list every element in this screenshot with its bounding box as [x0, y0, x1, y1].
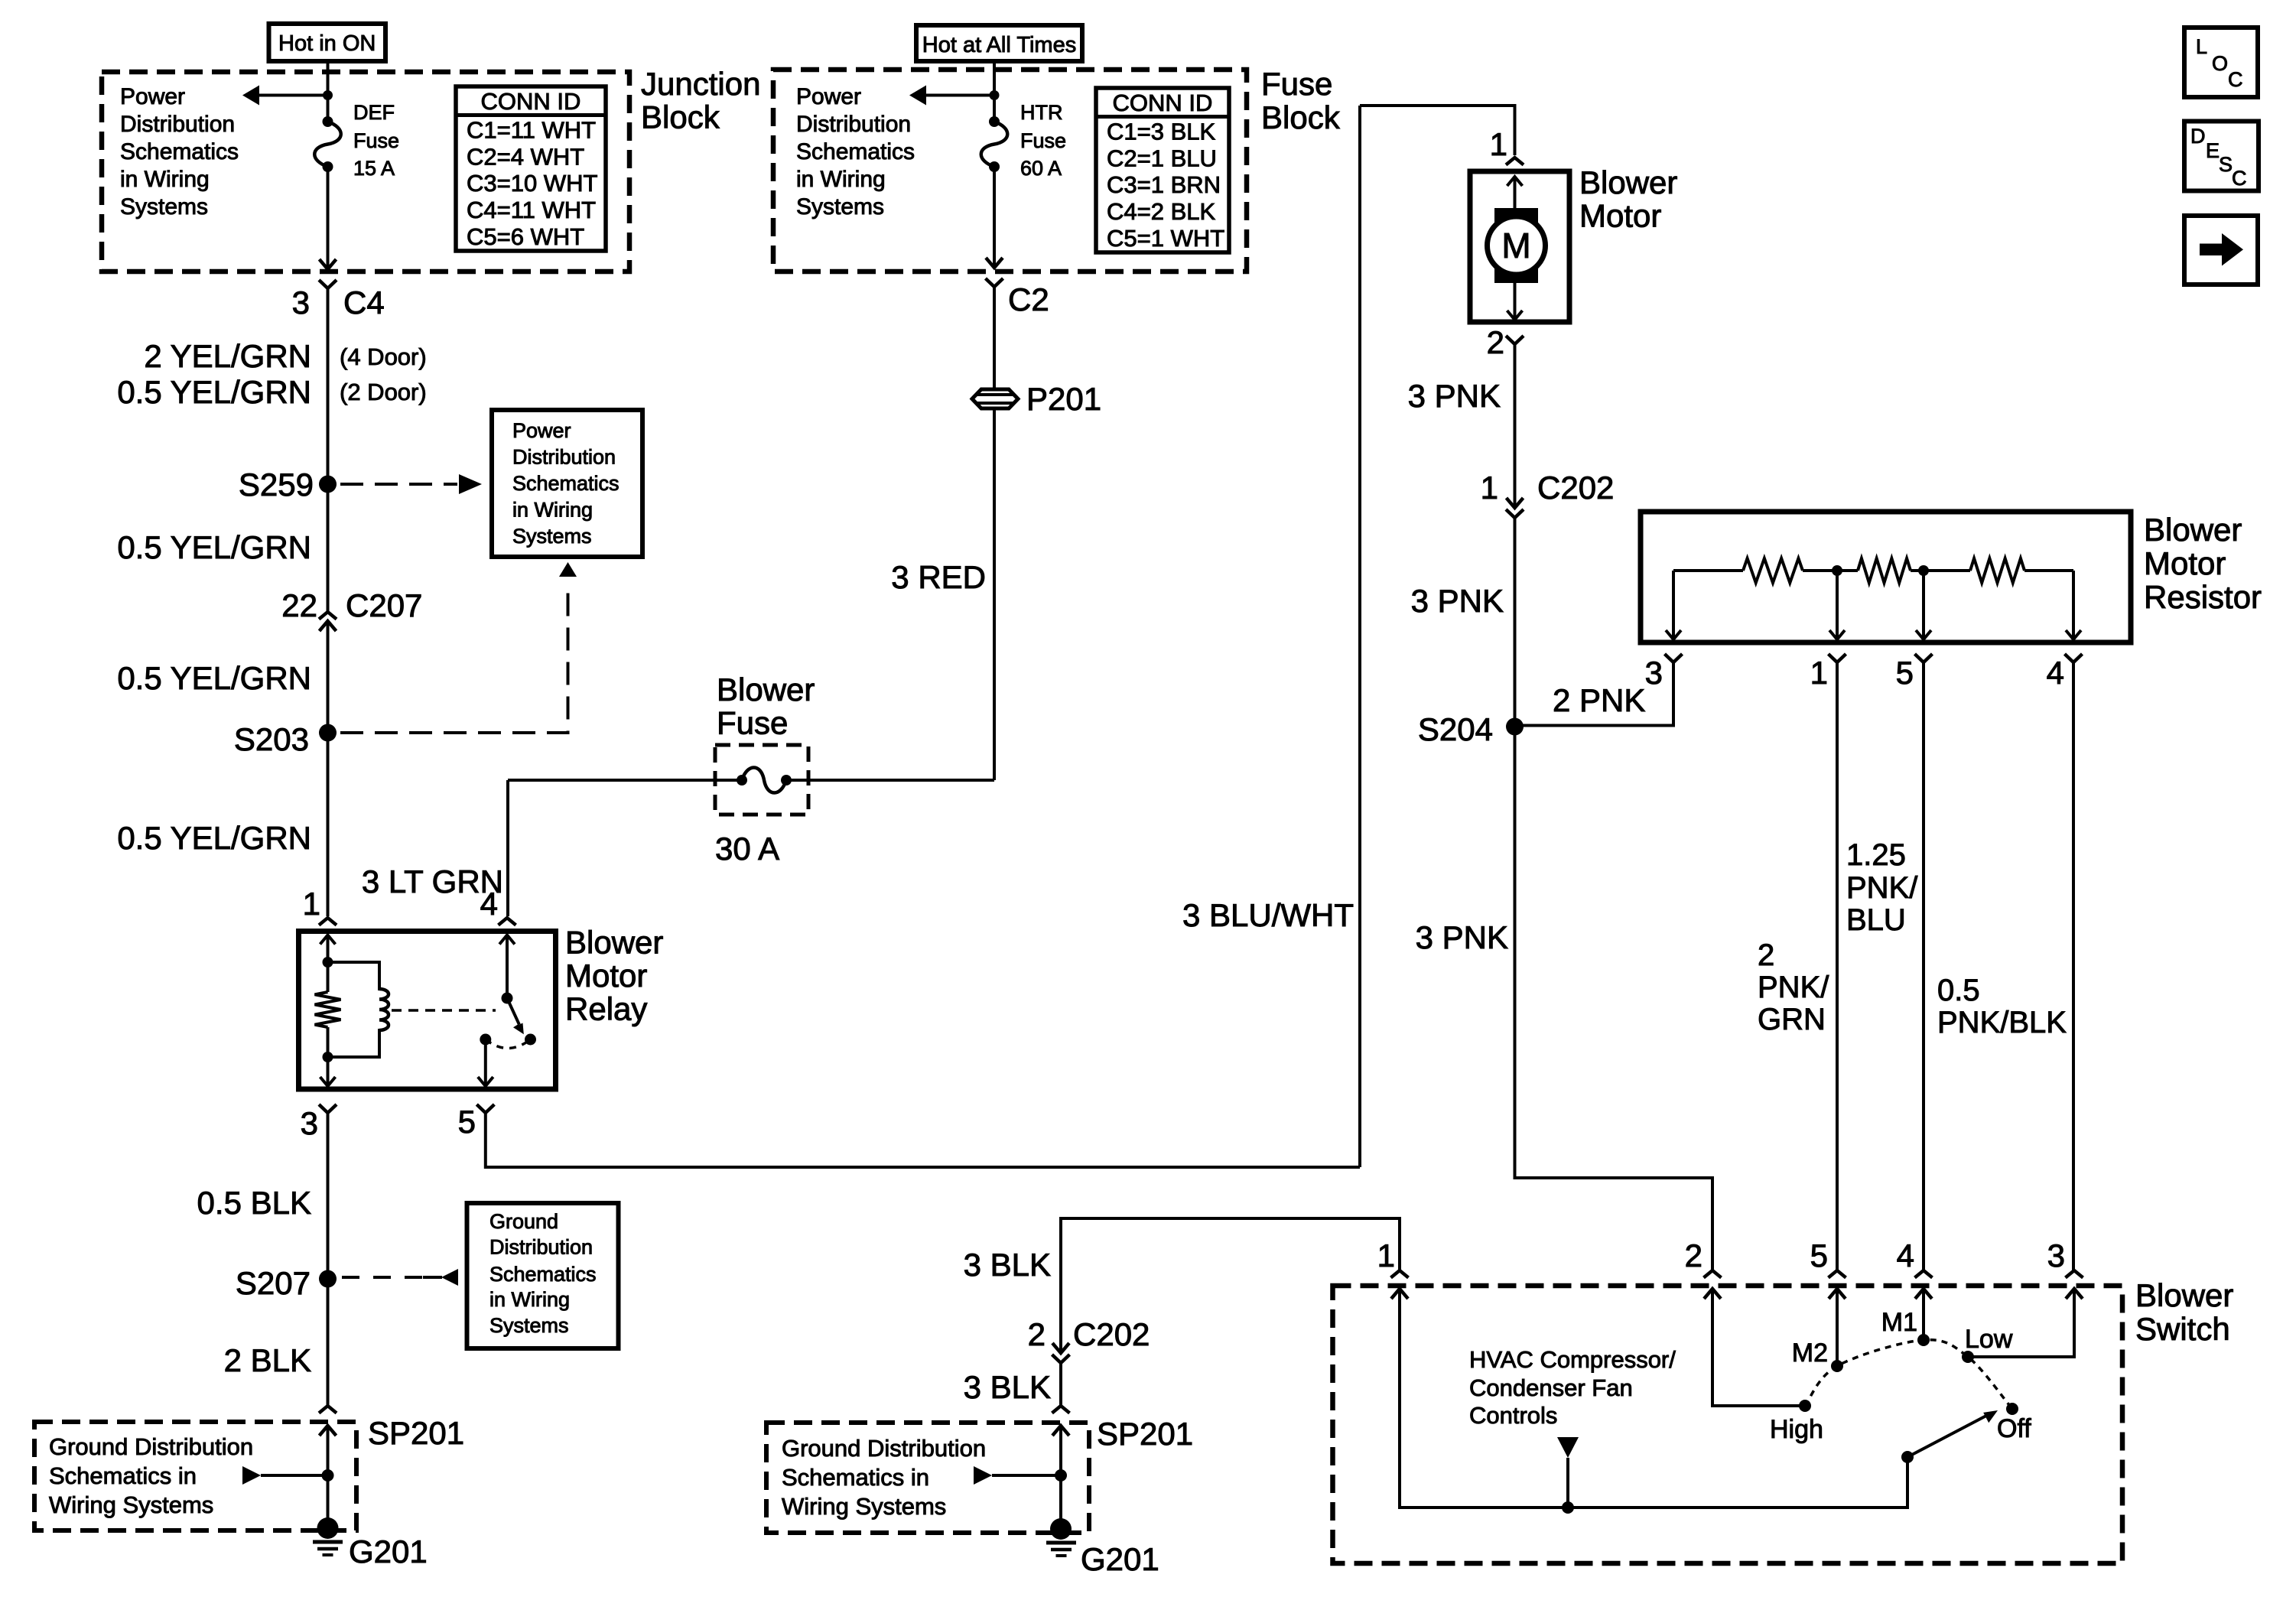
relay pin1 female: [319, 918, 337, 925]
svg-text:15 A: 15 A: [353, 157, 395, 180]
svg-text:Power: Power: [796, 84, 861, 109]
svg-text:D: D: [2190, 125, 2206, 148]
svg-text:Schematics in: Schematics in: [782, 1464, 929, 1491]
wire C202 to S204: [1514, 518, 1517, 727]
svg-text:P201: P201: [1026, 381, 1101, 417]
relay contact dashed arc: [486, 1039, 531, 1049]
relay pin3 female below: [319, 1104, 337, 1113]
svg-text:C: C: [2232, 167, 2247, 190]
switch pin4 male arrow: [1915, 1289, 1932, 1299]
relay box Blower Motor Relay: [299, 932, 556, 1090]
splice S259: [319, 476, 337, 493]
switch pin5 male arrow: [1829, 1289, 1846, 1299]
connector C2 male arrow: [986, 258, 1003, 268]
svg-text:1.25: 1.25: [1846, 838, 1906, 872]
svg-text:Ground Distribution: Ground Distribution: [49, 1433, 253, 1460]
wire switch pin1 feed: [1061, 1218, 1400, 1353]
switch pin2 female: [1704, 1270, 1722, 1278]
resistor leg pin1: [1836, 571, 1839, 637]
blower switch dashed box: [1333, 1286, 2123, 1563]
relay pin1 internal arrow: [320, 935, 336, 945]
resistor leg pin3: [1672, 571, 1675, 637]
arrow to Power Distribution Schematics (left): [259, 94, 328, 97]
svg-text:Blower: Blower: [2135, 1277, 2233, 1313]
svg-text:C: C: [2228, 68, 2243, 91]
switch contact M1: [1917, 1334, 1930, 1346]
node on wire B at arrow branch: [990, 90, 1000, 100]
wire DEF fuse to C4: [327, 167, 330, 269]
ground G201 symbol (left): [317, 1517, 339, 1539]
relay pin5 female below: [476, 1104, 494, 1113]
connector C2 female: [986, 278, 1003, 287]
svg-text:M1: M1: [1881, 1308, 1917, 1337]
svg-text:Low: Low: [1965, 1325, 2013, 1354]
ground dashed box (right): [766, 1423, 1089, 1533]
svg-text:Condenser Fan: Condenser Fan: [1469, 1374, 1633, 1401]
relay resistor (internal): [327, 962, 330, 992]
wire P201 down to corner: [993, 408, 996, 780]
switch position dotted arc: [1805, 1340, 2012, 1409]
svg-text:in Wiring: in Wiring: [120, 167, 210, 192]
svg-text:Distribution: Distribution: [120, 112, 235, 137]
blower motor resistor box: [1641, 512, 2131, 642]
splice S203: [319, 724, 337, 742]
resistor node 1: [1832, 565, 1842, 576]
svg-text:3: 3: [301, 1105, 318, 1141]
svg-text:L: L: [2196, 35, 2207, 58]
switch wire pin3 to Low: [1968, 1289, 2074, 1357]
svg-text:Switch: Switch: [2135, 1311, 2230, 1347]
CONN ID table (junction block): [456, 86, 606, 251]
svg-text:C202: C202: [1537, 470, 1614, 506]
svg-text:C2=1 BLU: C2=1 BLU: [1107, 145, 1217, 171]
connector C207 female: [319, 612, 337, 620]
svg-text:4: 4: [2047, 655, 2064, 691]
relay internal node top: [323, 957, 333, 968]
svg-text:Schematics: Schematics: [796, 139, 915, 164]
relay contact to pin5: [480, 1034, 491, 1046]
relay actuation dashed link: [392, 1009, 496, 1012]
svg-text:3 BLU/WHT: 3 BLU/WHT: [1182, 897, 1354, 933]
svg-text:C4: C4: [343, 285, 385, 320]
blower fuse dashed box: [715, 745, 808, 815]
svg-text:in Wiring: in Wiring: [512, 499, 593, 522]
svg-text:Hot at All Times: Hot at All Times: [922, 33, 1076, 57]
blower motor pin2 female below: [1506, 336, 1524, 344]
svg-text:30 A: 30 A: [715, 831, 779, 867]
svg-text:C2: C2: [1008, 281, 1049, 317]
svg-text:Systems: Systems: [489, 1314, 569, 1337]
dashed reference arrow from S259: [340, 483, 457, 486]
resistor node 2: [1918, 565, 1929, 576]
svg-text:3 RED: 3 RED: [891, 559, 986, 595]
svg-text:1: 1: [1490, 126, 1507, 162]
legend box DESC: [2184, 122, 2259, 191]
svg-text:C3=10 WHT: C3=10 WHT: [467, 170, 597, 197]
resistor pin5 female below: [1915, 654, 1933, 662]
fuse block dashed box: [773, 70, 1247, 272]
svg-text:C1=11 WHT: C1=11 WHT: [467, 117, 596, 144]
svg-text:C4=11 WHT: C4=11 WHT: [467, 197, 596, 223]
svg-text:C202: C202: [1073, 1316, 1150, 1352]
svg-text:2 YEL/GRN: 2 YEL/GRN: [144, 338, 311, 374]
svg-text:M2: M2: [1792, 1338, 1828, 1368]
wire C202 pin2 to SP201: [1059, 1363, 1062, 1406]
switch contact Low: [1962, 1351, 1974, 1363]
wire SP201 to G201 (right): [1059, 1426, 1062, 1529]
svg-text:3 BLK: 3 BLK: [964, 1369, 1051, 1405]
svg-text:Ground: Ground: [489, 1210, 558, 1233]
blower motor box: [1470, 171, 1569, 322]
svg-text:0.5 YEL/GRN: 0.5 YEL/GRN: [117, 374, 311, 410]
svg-text:Off: Off: [1997, 1414, 2031, 1443]
wire corner to blower fuse: [508, 779, 742, 782]
svg-text:Motor: Motor: [565, 958, 647, 994]
svg-text:Ground Distribution: Ground Distribution: [782, 1435, 986, 1462]
switch pin3 male arrow: [2066, 1289, 2083, 1299]
svg-text:3: 3: [1645, 655, 1663, 691]
svg-text:0.5 YEL/GRN: 0.5 YEL/GRN: [117, 660, 311, 696]
svg-text:Systems: Systems: [120, 194, 208, 220]
svg-text:22: 22: [281, 587, 317, 623]
relay switch pivot: [502, 993, 513, 1004]
switch common contact: [1901, 1451, 1914, 1463]
wire S204 to resistor pin3: [1515, 662, 1674, 726]
svg-text:Motor: Motor: [2144, 545, 2226, 581]
relay internal node bottom: [323, 1052, 333, 1062]
svg-text:G201: G201: [349, 1534, 428, 1569]
svg-text:1: 1: [1377, 1238, 1395, 1273]
switch contact Off: [2006, 1403, 2018, 1415]
resistor leg pin4: [2072, 571, 2075, 637]
resistor network chain: [1673, 569, 1743, 572]
svg-text:Junction: Junction: [641, 66, 760, 102]
relay pin4 female: [499, 918, 516, 925]
connector C207 male arrow: [320, 621, 337, 631]
connector C202 male arrow (pin1): [1507, 498, 1524, 508]
svg-text:Distribution: Distribution: [512, 446, 616, 469]
svg-text:4: 4: [480, 886, 498, 922]
switch wire pin4 to M1: [1922, 1289, 1925, 1340]
fuse HTR 60A symbol: [989, 116, 1000, 127]
legend box LOC: [2184, 28, 2258, 97]
svg-text:GRN: GRN: [1758, 1003, 1826, 1036]
svg-text:Blower: Blower: [1579, 164, 1677, 200]
splice SP201 male arrow (left): [320, 1426, 337, 1436]
splice SP201 male arrow (right): [1052, 1426, 1069, 1436]
svg-text:C5=6 WHT: C5=6 WHT: [467, 223, 584, 250]
svg-text:3 BLK: 3 BLK: [964, 1247, 1051, 1283]
svg-text:High: High: [1770, 1415, 1823, 1444]
svg-text:3 PNK: 3 PNK: [1411, 583, 1504, 619]
splice S204: [1506, 718, 1524, 736]
svg-text:1: 1: [1481, 470, 1498, 506]
switch pin1 male arrow: [1391, 1289, 1408, 1299]
wire relay pin3 to S207: [327, 1113, 330, 1279]
wire C207 to S203: [327, 621, 330, 733]
svg-text:M: M: [1501, 226, 1530, 265]
svg-text:Blower: Blower: [565, 925, 663, 961]
relay pin5 internal wire: [484, 1039, 487, 1084]
switch pin2 male arrow: [1704, 1289, 1721, 1299]
switch pin5 female: [1829, 1270, 1846, 1278]
svg-text:Block: Block: [641, 99, 720, 135]
resistor leg pin5: [1922, 571, 1925, 637]
svg-text:2: 2: [1487, 324, 1504, 360]
resistor pin1 female below: [1829, 654, 1846, 662]
svg-text:E: E: [2206, 139, 2220, 162]
svg-text:CONN ID: CONN ID: [481, 88, 581, 115]
svg-text:Schematics: Schematics: [120, 139, 239, 164]
svg-text:Power: Power: [120, 84, 185, 109]
svg-text:1: 1: [303, 886, 320, 922]
blower motor pin1 female: [1506, 158, 1524, 165]
svg-text:2 PNK: 2 PNK: [1553, 682, 1645, 718]
switch common bottom wire: [1400, 1289, 1907, 1508]
switch pin1 female: [1391, 1270, 1409, 1278]
svg-text:Fuse: Fuse: [717, 705, 788, 741]
blower motor pin1 internal arrow: [1507, 177, 1523, 186]
svg-text:0.5: 0.5: [1937, 974, 1980, 1007]
svg-text:S207: S207: [236, 1265, 311, 1301]
power label box Hot at All Times: [916, 25, 1082, 61]
fuse Blower 30A symbol: [737, 775, 747, 785]
relay pin4 internal arrow: [499, 935, 515, 945]
svg-text:C5=1 WHT: C5=1 WHT: [1107, 225, 1224, 252]
svg-text:Power: Power: [512, 419, 571, 442]
CONN ID table (fuse block): [1096, 88, 1229, 252]
wire motor pin2 to C202: [1514, 344, 1517, 508]
connector P201 symbol: [972, 389, 1018, 408]
svg-text:S203: S203: [234, 721, 309, 757]
svg-text:BLU: BLU: [1846, 903, 1906, 937]
svg-text:HVAC Compressor/: HVAC Compressor/: [1469, 1346, 1676, 1373]
wire from Hot at All Times into fuse block: [993, 61, 996, 122]
svg-text:Fuse: Fuse: [1261, 66, 1332, 102]
svg-text:Wiring Systems: Wiring Systems: [782, 1493, 946, 1520]
switch contact M2: [1831, 1360, 1843, 1372]
wire riser 3 BLU/WHT: [1358, 106, 1361, 1167]
svg-text:in Wiring: in Wiring: [489, 1288, 570, 1311]
connector C202 male arrow (pin2): [1052, 1343, 1069, 1353]
svg-text:O: O: [2212, 52, 2228, 75]
switch node HVAC: [1562, 1501, 1574, 1514]
wire S203 to relay pin 1: [327, 733, 330, 916]
svg-text:Motor: Motor: [1579, 198, 1661, 234]
arrow to Power Distribution Schematics (fuse block): [926, 94, 994, 97]
svg-text:SP201: SP201: [1097, 1416, 1193, 1452]
svg-text:SP201: SP201: [368, 1415, 464, 1451]
junction block dashed box: [102, 72, 629, 272]
wire C4 to S259: [327, 288, 330, 484]
svg-text:Relay: Relay: [565, 991, 647, 1027]
svg-text:Distribution: Distribution: [796, 112, 911, 137]
svg-text:PNK/BLK: PNK/BLK: [1937, 1006, 2067, 1039]
svg-text:3 PNK: 3 PNK: [1408, 378, 1501, 414]
svg-text:(2 Door): (2 Door): [340, 379, 427, 405]
svg-text:S259: S259: [239, 467, 314, 503]
motor M symbol: [1494, 208, 1538, 283]
svg-text:S204: S204: [1418, 711, 1493, 747]
svg-text:Block: Block: [1261, 99, 1341, 135]
wire HTR fuse to C2: [993, 167, 996, 268]
svg-text:3: 3: [292, 285, 310, 320]
switch wire pin2 to High: [1712, 1289, 1805, 1406]
svg-text:CONN ID: CONN ID: [1113, 89, 1213, 116]
svg-text:C1=3 BLK: C1=3 BLK: [1107, 119, 1216, 145]
svg-text:(4 Door): (4 Door): [340, 343, 427, 370]
splice SP201 female (right): [1052, 1406, 1070, 1413]
switch pin4 female: [1915, 1270, 1933, 1278]
dashed reference arrow from S203 to box: [340, 583, 568, 733]
relay pin3 internal wire: [327, 1057, 330, 1084]
svg-text:0.5 YEL/GRN: 0.5 YEL/GRN: [117, 529, 311, 565]
svg-text:PNK/: PNK/: [1758, 971, 1829, 1004]
svg-text:5: 5: [1896, 655, 1914, 691]
svg-text:C207: C207: [346, 587, 422, 623]
relay switch arm: [507, 998, 519, 1025]
svg-text:DEF: DEF: [353, 101, 395, 124]
svg-text:Blower: Blower: [717, 672, 815, 707]
svg-text:60 A: 60 A: [1020, 157, 1062, 180]
power label box Hot in ON: [269, 24, 386, 61]
node on wire A at arrow branch: [323, 90, 333, 100]
svg-text:Blower: Blower: [2144, 512, 2242, 548]
blower motor internal arrow down: [1514, 283, 1517, 317]
svg-text:1: 1: [1810, 655, 1828, 691]
connector C202 female (pin2): [1052, 1355, 1070, 1363]
svg-text:3: 3: [2047, 1238, 2065, 1273]
svg-text:Schematics: Schematics: [512, 472, 620, 495]
wire resistor pin1 to switch pin5: [1836, 662, 1839, 1270]
svg-text:Fuse: Fuse: [1020, 129, 1066, 152]
svg-text:G201: G201: [1081, 1541, 1159, 1577]
wire resistor pin4 to switch pin3: [2072, 662, 2075, 1270]
wire SP201 to G201 (left): [327, 1426, 330, 1528]
svg-text:PNK/: PNK/: [1846, 871, 1918, 905]
reference box Ground Distribution Schematics (S207): [467, 1203, 619, 1348]
svg-text:3 PNK: 3 PNK: [1416, 919, 1508, 955]
ground ref arrow (left): [242, 1466, 261, 1485]
switch contact High: [1799, 1400, 1811, 1412]
svg-text:Fuse: Fuse: [353, 129, 399, 152]
wire fuse output down to relay pin4: [506, 780, 509, 916]
switch wire pin5 to M2: [1836, 1289, 1839, 1366]
svg-text:0.5 BLK: 0.5 BLK: [197, 1185, 311, 1221]
svg-text:2: 2: [1685, 1238, 1702, 1273]
svg-text:Systems: Systems: [796, 194, 884, 220]
wire resistor pin5 to switch pin4: [1922, 662, 1925, 1270]
ground G201 symbol (right): [1050, 1518, 1072, 1540]
wire C2 to P201: [993, 287, 996, 389]
svg-text:4: 4: [1897, 1238, 1914, 1273]
ground dashed box (left): [34, 1422, 356, 1530]
svg-text:Distribution: Distribution: [489, 1236, 593, 1259]
svg-text:Systems: Systems: [512, 525, 592, 548]
splice SP201 female (left): [319, 1406, 337, 1413]
switch rotor arm: [1907, 1416, 1986, 1457]
wire S207 to SP201: [327, 1279, 330, 1406]
resistor pin3 female below: [1665, 654, 1683, 662]
relay coil: [379, 989, 389, 1030]
svg-text:HTR: HTR: [1020, 101, 1063, 124]
wire riser to blower motor: [1360, 106, 1515, 155]
switch pin3 female: [2066, 1270, 2083, 1278]
svg-text:Hot in ON: Hot in ON: [278, 31, 376, 56]
dashed reference arrow from S207: [342, 1276, 423, 1279]
svg-text:Resistor: Resistor: [2144, 579, 2262, 615]
relay alternate contact: [525, 1034, 536, 1046]
reference box Power Distribution Schematics (S259): [492, 410, 642, 557]
wire from Hot in ON into junction block: [327, 61, 330, 122]
svg-text:S: S: [2219, 153, 2233, 176]
ground ref arrow (right): [974, 1466, 992, 1485]
splice S207: [319, 1270, 337, 1288]
wire S204 down to switch pin2 branch: [1515, 727, 1713, 1270]
svg-text:0.5 YEL/GRN: 0.5 YEL/GRN: [117, 820, 311, 856]
wire S259 to C207: [327, 484, 330, 612]
svg-text:C3=1 BRN: C3=1 BRN: [1107, 171, 1221, 198]
connector C4 female: [319, 280, 337, 288]
connector C4 male arrow: [320, 259, 337, 269]
svg-text:2: 2: [1758, 938, 1774, 972]
connector C202 female (pin1): [1506, 509, 1524, 518]
wire relay pin5 to riser: [486, 1113, 1360, 1167]
wire blower fuse to wire B corner: [786, 779, 994, 782]
svg-text:2 BLK: 2 BLK: [224, 1342, 311, 1378]
svg-text:Controls: Controls: [1469, 1402, 1557, 1429]
svg-text:in Wiring: in Wiring: [796, 167, 886, 192]
svg-text:5: 5: [458, 1104, 476, 1140]
svg-text:C4=2 BLK: C4=2 BLK: [1107, 198, 1216, 225]
svg-text:5: 5: [1810, 1238, 1828, 1273]
resistor pin4 female below: [2065, 654, 2083, 662]
svg-text:Wiring Systems: Wiring Systems: [49, 1491, 213, 1518]
relay coil branch wires: [328, 962, 380, 990]
svg-text:2: 2: [1028, 1316, 1046, 1352]
svg-text:Schematics: Schematics: [489, 1263, 597, 1286]
HVAC feed triangle: [1557, 1437, 1579, 1458]
legend box arrow: [2184, 216, 2258, 285]
svg-text:Schematics in: Schematics in: [49, 1462, 197, 1489]
svg-text:C2=4 WHT: C2=4 WHT: [467, 143, 584, 170]
fuse DEF 15A symbol: [323, 116, 333, 127]
